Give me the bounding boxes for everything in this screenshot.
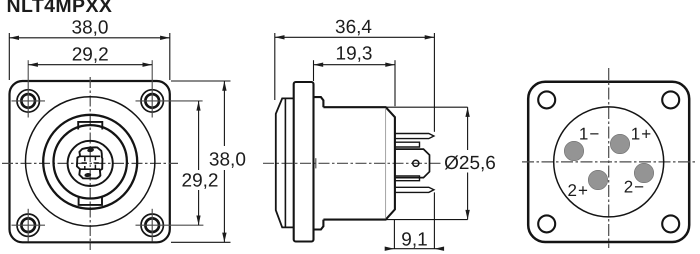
svg-text:2−: 2− — [624, 177, 645, 196]
svg-text:38,0: 38,0 — [72, 17, 109, 38]
svg-text:1−: 1− — [579, 125, 600, 144]
svg-text:38,0: 38,0 — [209, 149, 246, 170]
svg-text:9,1: 9,1 — [401, 230, 427, 251]
svg-text:NLT4MPXX: NLT4MPXX — [7, 0, 113, 17]
svg-text:29,2: 29,2 — [72, 45, 109, 66]
svg-text:2+: 2+ — [568, 181, 589, 200]
svg-text:19,3: 19,3 — [336, 43, 373, 64]
svg-text:36,4: 36,4 — [335, 17, 372, 38]
svg-text:29,2: 29,2 — [182, 171, 219, 192]
svg-text:1+: 1+ — [631, 124, 652, 143]
svg-text:Ø25,6: Ø25,6 — [444, 153, 496, 174]
